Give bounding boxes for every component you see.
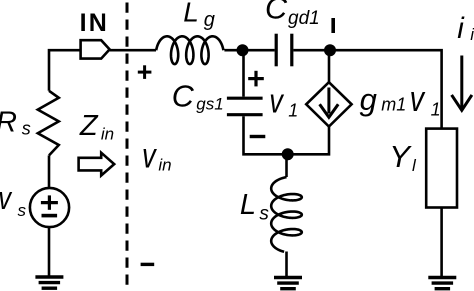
svg-text:Y: Y — [389, 139, 412, 174]
svg-text:gs1: gs1 — [196, 95, 223, 114]
svg-text:g: g — [204, 9, 215, 31]
svg-text:1: 1 — [431, 100, 441, 120]
svg-text:IN: IN — [80, 9, 109, 37]
svg-text:1: 1 — [288, 101, 298, 121]
svg-text:m1: m1 — [381, 94, 406, 114]
svg-text:in: in — [158, 156, 171, 175]
svg-text:C: C — [172, 80, 195, 114]
svg-text:L: L — [240, 189, 256, 221]
svg-text:s: s — [18, 201, 27, 220]
svg-text:Z: Z — [79, 110, 99, 142]
svg-text:gd1: gd1 — [288, 8, 320, 29]
svg-text:in: in — [101, 125, 114, 144]
svg-text:g: g — [360, 82, 377, 117]
svg-text:C: C — [265, 0, 288, 26]
svg-text:L: L — [183, 0, 199, 28]
svg-text:v: v — [410, 78, 426, 119]
svg-text:i: i — [470, 25, 474, 44]
svg-text:s: s — [22, 119, 31, 139]
svg-text:v: v — [0, 181, 12, 216]
svg-text:s: s — [259, 204, 269, 225]
svg-text:v: v — [142, 136, 158, 175]
svg-text:v: v — [269, 82, 284, 121]
svg-text:R: R — [0, 106, 17, 138]
